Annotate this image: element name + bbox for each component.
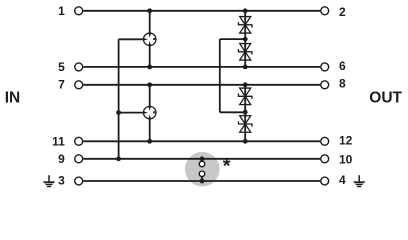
wire terminal 9 to terminal 10: [83, 158, 320, 160]
wire terminal 5 to terminal 6: [83, 66, 320, 68]
wire wire9 to spark gap: [201, 159, 203, 162]
svg-text:2: 2: [339, 5, 346, 19]
suppressor diode D1: [238, 17, 252, 34]
terminal 10: [321, 153, 353, 167]
wire GDT1 left arm: [119, 38, 144, 40]
junction wire9 / spark gap: [200, 156, 205, 161]
svg-text:5: 5: [58, 60, 65, 74]
wire GDT arms down to wire9: [118, 39, 120, 159]
wire stack2 midpoint arm: [220, 111, 245, 113]
wire spark gap to wire3: [201, 177, 203, 182]
wire terminal 11 to terminal 12: [83, 140, 320, 142]
junction wire1 / GDT1 line: [147, 8, 152, 13]
wire GDT1 bottom to wire5: [149, 46, 151, 67]
wire terminal 1 to terminal 2: [83, 10, 320, 12]
svg-text:3: 3: [58, 174, 65, 188]
svg-text:IN: IN: [5, 90, 21, 107]
wire terminal 3 to terminal 4: [83, 180, 320, 182]
wire GDT2 bottom to wire11: [149, 119, 151, 141]
junction stack2 midpoint: [243, 110, 248, 115]
junction wire1 / stack1: [243, 8, 248, 13]
junction wire3 / spark gap: [200, 179, 205, 184]
wire stack1 midpoint arm: [220, 38, 245, 40]
svg-text:11: 11: [52, 135, 65, 149]
svg-text:OUT: OUT: [369, 90, 402, 107]
junction wire7 / GDT2 line: [147, 82, 152, 87]
svg-text:4: 4: [339, 173, 346, 187]
wire GDT2 left arm: [119, 112, 144, 114]
svg-text:8: 8: [339, 77, 346, 91]
wire diode stack 1 vertical: [244, 11, 246, 67]
junction wire12 / stack2: [243, 139, 248, 144]
suppressor diode D3: [238, 88, 252, 105]
junction wire9 / GDT vertical: [116, 156, 121, 161]
wire diode stack 2 vertical: [244, 85, 246, 142]
junction wire8 / stack2: [243, 82, 248, 87]
terminal 9: [58, 152, 83, 166]
terminal 11: [52, 135, 83, 149]
gray highlight circle: [185, 152, 220, 187]
wire link stack1 mid to stack2 mid: [219, 39, 221, 112]
gas discharge tube GDT2: [143, 106, 156, 119]
terminal 1: [58, 4, 83, 18]
terminal 2: [321, 5, 346, 19]
gas discharge tube GDT1: [143, 33, 156, 46]
terminal 6: [321, 59, 346, 73]
ground symbol at terminal 4: [353, 175, 365, 187]
svg-text:12: 12: [339, 133, 353, 147]
wire wire7 to GDT2 top: [149, 85, 151, 107]
junction wire11 / GDT2 line: [147, 139, 152, 144]
wire wire1 to GDT1 top: [149, 11, 151, 33]
svg-text:10: 10: [339, 153, 353, 167]
wire terminal 7 to terminal 8: [83, 84, 320, 86]
suppressor diode D4: [238, 116, 252, 133]
terminal 5: [58, 60, 83, 74]
junction wire5 / stack1: [243, 65, 248, 70]
svg-text:6: 6: [339, 59, 346, 73]
terminal 4: [321, 173, 346, 187]
suppressor diode D2: [238, 44, 252, 61]
svg-text:7: 7: [58, 78, 65, 92]
terminal 12: [321, 133, 353, 147]
ground symbol at terminal 3: [43, 175, 55, 187]
terminal 3: [58, 174, 83, 188]
terminal 8: [321, 77, 346, 91]
svg-text:1: 1: [58, 4, 65, 18]
spark gap electrode circles: [199, 161, 205, 176]
junction stack1 midpoint: [243, 37, 248, 42]
svg-text:*: *: [223, 156, 231, 178]
junction GDT2 arm / vertical: [116, 110, 121, 115]
terminal 7: [58, 78, 83, 92]
svg-text:9: 9: [58, 152, 65, 166]
junction wire5 / GDT1 line: [147, 65, 152, 70]
